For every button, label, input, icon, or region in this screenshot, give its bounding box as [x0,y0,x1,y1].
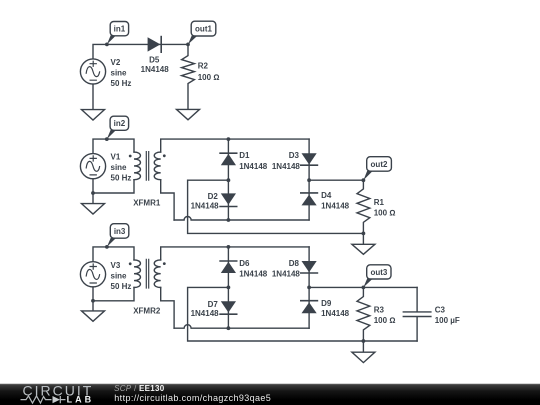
junction dot node out1 (R2 top) [186,43,190,47]
wire rail B with hop [174,325,309,328]
diode D3 [301,153,318,165]
junction dot rail B / D2 [227,218,231,222]
svg-text:C3: C3 [435,306,446,315]
svg-text:1N4148: 1N4148 [272,270,301,279]
svg-text:V2: V2 [111,58,121,67]
wire V2 bottom to ground [92,84,94,110]
svg-text:out3: out3 [370,268,387,277]
svg-text:V1: V1 [111,152,121,161]
ground (V1) [82,204,105,214]
label D9 value [321,299,350,318]
svg-text:50 Hz: 50 Hz [111,282,132,291]
flag out1 [188,21,216,44]
ground (R3) [352,352,375,362]
junction dot V1/XFMR1 primary bottom [91,191,95,195]
resistor R2 [182,44,195,109]
junction dot rail A / D1 [227,137,231,141]
label V2 value [111,58,132,88]
svg-text:XFMR1: XFMR1 [133,198,161,207]
transformer XFMR1 [129,152,166,181]
svg-text:50 Hz: 50 Hz [111,173,132,182]
capacitor C3 [403,287,431,341]
ground (R1) [352,244,375,254]
junction dot R3 bottom [362,339,366,343]
svg-text:100 Ω: 100 Ω [374,316,396,325]
label D5 value [141,55,170,74]
flag in3 [107,224,129,247]
svg-text:D3: D3 [289,151,300,160]
svg-text:100 µF: 100 µF [435,316,460,325]
ground (V3) [82,311,105,321]
svg-text:D7: D7 [208,300,219,309]
wire rail B with hop [174,217,309,220]
label R2 value [198,62,220,83]
wire node C row (left bridge mid to bottom row) [188,287,364,341]
svg-text:D9: D9 [321,299,332,308]
wire R1 bottom to ground [362,233,364,244]
junction dot node out2 [362,178,366,182]
label D4 value [321,191,350,210]
diode D1 [220,153,237,165]
voltage source V1 [80,154,105,179]
svg-text:D5: D5 [149,55,160,64]
junction dot rail A / D6 [227,245,231,249]
voltage source V2 [80,59,105,84]
resistor R3 [357,287,370,341]
wire R3 bottom to ground [362,341,364,352]
svg-text:out2: out2 [371,160,388,169]
label D1 value [239,151,268,171]
svg-text:50 Hz: 50 Hz [111,79,132,88]
svg-text:D8: D8 [289,259,300,268]
svg-text:1N4148: 1N4148 [321,309,350,318]
junction dot node C [227,178,231,182]
resistor R1 [357,180,370,233]
svg-text:1N4148: 1N4148 [272,162,301,171]
svg-text:sine: sine [111,163,128,172]
ground (R2) [177,109,200,119]
label V1 value [111,152,132,182]
logo squiggle (resistor+diode) [21,396,66,403]
diode D9 [301,301,318,314]
svg-text:1N4148: 1N4148 [239,270,268,279]
wire bridge column right (D8,D9) [308,247,310,328]
svg-text:R1: R1 [374,198,385,207]
wire XFMR1 secondary top rail A [161,139,309,152]
svg-text:D2: D2 [208,192,219,201]
junction dot D3/D4 node [307,178,311,182]
junction dot node in2 [105,137,109,141]
wire V3 top to XFMR2 primary top [93,247,134,262]
svg-text:sine: sine [111,69,128,78]
junction dot D8/D9 node [307,286,311,290]
wire XFMR1 primary bottom to V1 [93,180,134,193]
svg-text:R3: R3 [374,305,385,314]
junction dot V3/XFMR2 primary bottom [91,299,95,303]
svg-text:V3: V3 [111,261,121,270]
svg-text:1N4148: 1N4148 [191,309,220,318]
junction dot rail B / D7 [227,326,231,330]
wire XFMR1 secondary bottom to rail B [161,180,174,220]
svg-text:100 Ω: 100 Ω [374,208,396,217]
diode D2 [220,193,237,206]
wire out3 row to C3 [309,286,417,288]
wire XFMR2 secondary bottom to rail B [161,288,174,329]
label D8 value [272,259,301,279]
label D2 value [191,192,220,210]
wire node C row (left bridge mid to bottom row) [188,180,364,233]
label C3 value [435,306,460,326]
label D6 value [239,259,268,279]
svg-text:XFMR2: XFMR2 [133,306,161,315]
wire out2 row [309,179,363,181]
wire V1 top to XFMR1 primary top [93,139,134,154]
label R1 value [374,198,396,218]
wire bridge column left (D1,D2) [227,139,229,220]
flag in2 [107,116,129,139]
svg-text:in2: in2 [114,119,126,128]
wire XFMR2 primary bottom to V3 [93,288,134,301]
svg-text:D4: D4 [321,191,332,200]
svg-text:out1: out1 [195,25,212,34]
svg-text:1N4148: 1N4148 [239,162,268,171]
svg-text:R2: R2 [198,62,209,71]
svg-text:100 Ω: 100 Ω [198,73,220,82]
svg-text:D1: D1 [239,151,250,160]
svg-text:in3: in3 [114,227,126,236]
ground (V2) [82,110,105,120]
svg-text:sine: sine [111,272,128,281]
svg-text:http://circuitlab.com/chagzch9: http://circuitlab.com/chagzch93qae5 [114,393,271,403]
diode D5 [148,37,162,53]
wire V3 bottom to ground [92,287,94,311]
wire bridge column right (D3,D4) [308,139,310,220]
svg-text:1N4148: 1N4148 [191,201,220,210]
svg-text:SCP / EE130: SCP / EE130 [114,384,165,393]
diode D8 [301,261,318,273]
svg-text:1N4148: 1N4148 [321,201,350,210]
wire V2 top to R2 top (node in1/out1 rail) [93,44,188,59]
diode D6 [220,261,237,273]
wire XFMR2 secondary top rail A [161,247,309,260]
flag out2 [363,157,391,181]
junction dot node out3 [362,286,366,290]
diode D4 [301,193,318,206]
diode D7 [220,301,237,314]
svg-text:in1: in1 [114,25,126,34]
flag in1 [107,22,129,45]
label D3 value [272,151,301,171]
svg-text:1N4148: 1N4148 [141,65,170,74]
junction dot node in1 [105,43,109,47]
junction dot node C (bottom bridge) [227,286,231,290]
transformer XFMR2 [129,259,166,288]
label R3 value [374,305,396,325]
label D7 value [191,300,220,318]
svg-text:LAB: LAB [67,395,95,405]
voltage source V3 [80,262,105,287]
wire C3 bottom row [363,340,417,342]
junction dot R1 bottom [362,232,366,236]
wire V1 bottom to ground [92,179,94,204]
wire bridge column left (D6,D7) [227,247,229,328]
junction dot node in3 [105,245,109,249]
svg-text:D6: D6 [239,259,250,268]
flag out3 [363,265,391,288]
label V3 value [111,261,132,291]
